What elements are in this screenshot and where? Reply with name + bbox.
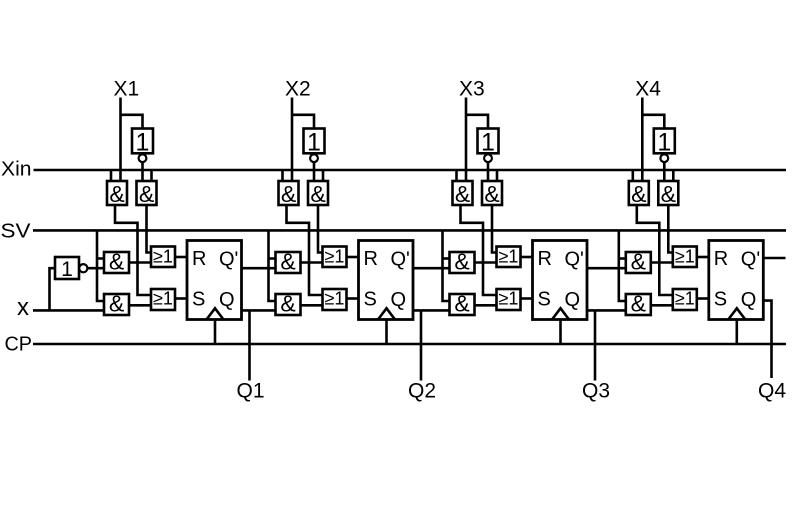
- svg-text:≥1: ≥1: [325, 289, 345, 309]
- svg-text:Q': Q': [219, 248, 238, 270]
- svg-text:&: &: [280, 248, 295, 274]
- svg-text:Q': Q': [565, 248, 584, 270]
- svg-text:&: &: [484, 181, 499, 207]
- svg-text:Q: Q: [565, 289, 581, 311]
- svg-text:≥1: ≥1: [675, 289, 695, 309]
- svg-text:&: &: [631, 181, 646, 207]
- svg-text:&: &: [661, 181, 676, 207]
- svg-text:&: &: [454, 248, 469, 274]
- svg-text:≥1: ≥1: [325, 246, 345, 266]
- svg-text:Q3: Q3: [582, 380, 610, 403]
- svg-text:S: S: [714, 289, 727, 311]
- svg-text:Xin: Xin: [1, 158, 32, 180]
- svg-text:Q': Q': [391, 248, 410, 270]
- svg-text:Q2: Q2: [408, 380, 436, 403]
- svg-text:&: &: [631, 248, 646, 274]
- svg-text:≥1: ≥1: [675, 246, 695, 266]
- svg-text:Q': Q': [741, 248, 760, 270]
- svg-text:≥1: ≥1: [499, 246, 519, 266]
- svg-text:≥1: ≥1: [499, 289, 519, 309]
- svg-text:S: S: [538, 289, 551, 311]
- svg-text:&: &: [109, 181, 124, 207]
- svg-text:1: 1: [61, 258, 73, 281]
- svg-text:X4: X4: [635, 77, 661, 100]
- svg-text:&: &: [454, 290, 469, 316]
- svg-text:X3: X3: [459, 77, 485, 100]
- svg-text:Q: Q: [391, 289, 407, 311]
- svg-text:1: 1: [307, 129, 321, 157]
- svg-text:SV: SV: [1, 220, 32, 242]
- svg-text:Q1: Q1: [237, 380, 265, 403]
- svg-text:S: S: [192, 289, 205, 311]
- svg-text:≥1: ≥1: [153, 289, 173, 309]
- svg-text:&: &: [139, 181, 154, 207]
- svg-text:Q: Q: [219, 289, 235, 311]
- svg-text:&: &: [631, 290, 646, 316]
- svg-text:CP: CP: [5, 334, 33, 356]
- svg-text:Q: Q: [741, 289, 757, 311]
- svg-text:&: &: [280, 290, 295, 316]
- svg-text:1: 1: [136, 129, 150, 157]
- svg-text:1: 1: [657, 129, 671, 157]
- svg-text:R: R: [714, 248, 728, 270]
- svg-text:&: &: [310, 181, 325, 207]
- svg-text:&: &: [281, 181, 296, 207]
- svg-text:R: R: [192, 248, 206, 270]
- svg-text:≥1: ≥1: [153, 246, 173, 266]
- svg-text:1: 1: [481, 129, 495, 157]
- svg-text:X2: X2: [285, 77, 311, 100]
- svg-text:&: &: [109, 290, 124, 316]
- svg-text:Q4: Q4: [758, 380, 786, 403]
- svg-text:R: R: [364, 248, 378, 270]
- svg-text:S: S: [364, 289, 377, 311]
- svg-text:X1: X1: [114, 77, 140, 100]
- svg-text:R: R: [538, 248, 552, 270]
- svg-text:x: x: [17, 294, 29, 321]
- svg-text:&: &: [109, 248, 124, 274]
- svg-text:&: &: [455, 181, 470, 207]
